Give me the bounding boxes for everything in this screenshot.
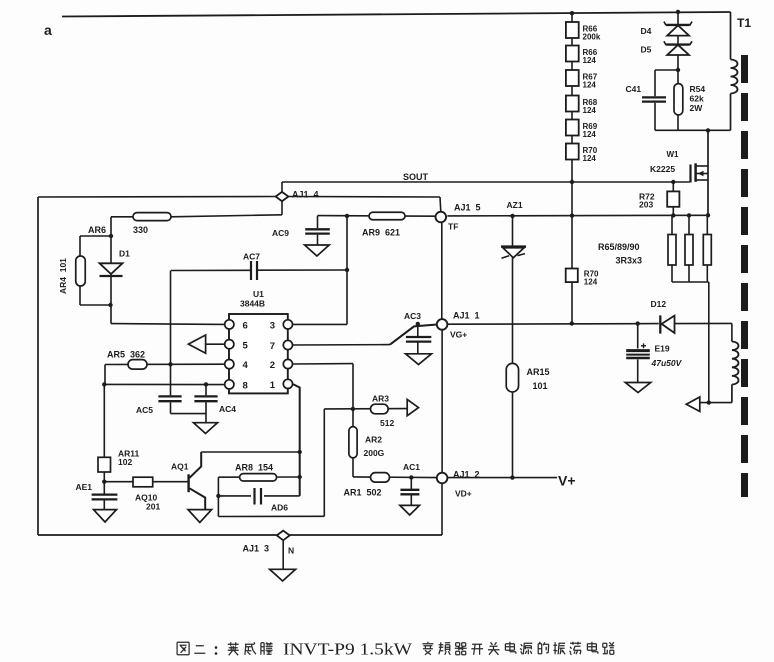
svg-text:203: 203 [639, 200, 653, 210]
svg-text:AZ1: AZ1 [507, 200, 523, 210]
svg-text:K2225: K2225 [650, 164, 675, 174]
svg-text:62k: 62k [690, 94, 704, 104]
svg-text:AJ1 5: AJ1 5 [454, 203, 481, 213]
svg-text:4: 4 [243, 360, 249, 371]
svg-text:AJ1 3: AJ1 3 [243, 544, 270, 554]
svg-text:AR2: AR2 [365, 435, 382, 445]
svg-text:124: 124 [583, 106, 597, 115]
svg-text:AJ1 4: AJ1 4 [292, 190, 319, 200]
svg-text:TF: TF [448, 222, 458, 232]
svg-text:124: 124 [584, 278, 598, 287]
svg-text:AR9 621: AR9 621 [362, 228, 400, 238]
svg-text:AJ1 2: AJ1 2 [453, 470, 480, 480]
svg-text:SOUT: SOUT [403, 172, 429, 182]
svg-text:AD6: AD6 [271, 503, 288, 513]
svg-text:AR1 502: AR1 502 [344, 488, 382, 498]
svg-text:124: 124 [583, 81, 597, 90]
svg-text:V+: V+ [558, 473, 576, 489]
svg-text:8: 8 [243, 381, 248, 392]
svg-text:D5: D5 [641, 45, 652, 55]
svg-text:W1: W1 [667, 150, 680, 159]
svg-text:a: a [44, 22, 52, 38]
svg-text:2: 2 [270, 360, 275, 371]
svg-text:VG+: VG+ [450, 330, 467, 340]
svg-text:AC4: AC4 [219, 404, 236, 414]
svg-text:201: 201 [146, 502, 160, 512]
svg-text:AC3: AC3 [404, 311, 421, 321]
svg-text:AC7: AC7 [243, 252, 260, 262]
svg-text:124: 124 [583, 154, 597, 163]
svg-text:N: N [288, 546, 294, 556]
svg-text:3: 3 [270, 321, 275, 332]
svg-text:3844B: 3844B [240, 299, 265, 309]
svg-text:124: 124 [583, 56, 597, 65]
svg-text:102: 102 [118, 457, 132, 467]
svg-text:D4: D4 [641, 26, 652, 36]
svg-text:AR5 362: AR5 362 [107, 350, 145, 360]
svg-text:47u50V: 47u50V [651, 358, 683, 368]
svg-text:200k: 200k [583, 33, 601, 42]
svg-text:R54: R54 [690, 84, 706, 94]
svg-text:AC1: AC1 [403, 462, 420, 472]
svg-text:AR8 154: AR8 154 [235, 463, 273, 473]
svg-text:1: 1 [270, 380, 276, 391]
svg-text:512: 512 [380, 418, 394, 428]
svg-text:AR15: AR15 [527, 367, 550, 377]
svg-text:200G: 200G [364, 448, 385, 458]
svg-text:AC5: AC5 [136, 405, 153, 415]
svg-text:7: 7 [270, 341, 275, 352]
svg-text:VD+: VD+ [455, 489, 472, 499]
svg-text:6: 6 [243, 321, 248, 332]
svg-text:AR4 101: AR4 101 [58, 258, 68, 294]
svg-text:AC9: AC9 [272, 228, 289, 238]
svg-text:2W: 2W [690, 103, 704, 113]
svg-text:D12: D12 [651, 299, 667, 309]
svg-text:3R3x3: 3R3x3 [616, 256, 643, 266]
svg-text:T1: T1 [737, 16, 751, 30]
svg-text:AR3: AR3 [372, 394, 389, 404]
svg-text:D1: D1 [119, 249, 130, 259]
svg-text:AQ1: AQ1 [171, 462, 189, 472]
svg-text:U1: U1 [253, 289, 264, 299]
svg-text:AE1: AE1 [76, 482, 93, 492]
svg-text:AR6: AR6 [88, 225, 106, 235]
svg-text:C41: C41 [626, 84, 642, 94]
svg-text:5: 5 [243, 341, 249, 352]
svg-text:124: 124 [583, 130, 597, 139]
svg-text:R65/89/90: R65/89/90 [598, 242, 640, 252]
svg-text:AJ1 1: AJ1 1 [453, 311, 480, 321]
svg-text:330: 330 [133, 225, 148, 235]
svg-text:E19: E19 [655, 344, 670, 354]
svg-text:INVT-P9 1.5kW: INVT-P9 1.5kW [283, 640, 412, 659]
svg-text:101: 101 [533, 381, 548, 391]
